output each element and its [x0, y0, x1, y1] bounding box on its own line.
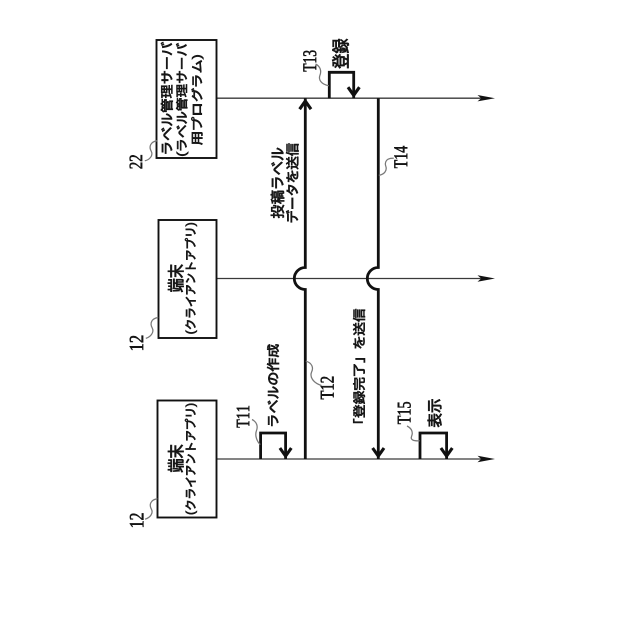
leader squiggle for T12 [306, 361, 322, 385]
leader squiggle for T15 [407, 426, 420, 441]
text box2-line2 [185, 223, 197, 334]
box terminal 2 [159, 220, 217, 338]
ref label T12 [321, 377, 334, 400]
ref label T15 [398, 402, 411, 424]
text box1-line3 [191, 55, 203, 145]
text t12msg-1 [271, 148, 285, 218]
text t13msg [332, 39, 349, 69]
pulse T13 (registration) [329, 72, 353, 98]
ref label 12bot [130, 513, 144, 526]
wire terminal-1 lifeline [217, 458, 490, 460]
leader squiggle for 12 (bottom) [145, 499, 157, 519]
wire terminal-2 lifeline [217, 278, 490, 280]
wire T14 message arrow (down) [367, 98, 378, 459]
leader squiggle for T14 [379, 158, 394, 175]
text box1-line2 [176, 43, 188, 156]
text box2-line1 [168, 265, 184, 293]
pulse T11 (label creation) [261, 433, 286, 459]
pulse T15 (display) [420, 433, 447, 459]
leader squiggle for T13 [316, 64, 329, 86]
ref label T14 [394, 146, 407, 168]
ref label 12mid [130, 336, 143, 350]
wire T12 message arrow (up) [294, 98, 305, 459]
text t15msg [428, 399, 442, 427]
text t12msg-2 [286, 143, 299, 222]
leader squiggle for 22 [145, 141, 157, 161]
text box3-line2 [185, 404, 197, 515]
box terminal 1 [158, 401, 217, 518]
leader squiggle for T11 [252, 420, 260, 445]
wire server lifeline [217, 97, 490, 99]
box label-management server [157, 40, 217, 158]
leader squiggle for 12 (middle) [146, 318, 158, 339]
ref label T11 [237, 406, 250, 428]
text box1-line1 [161, 42, 173, 154]
text t14msg [353, 309, 365, 423]
text box3-line1 [168, 445, 184, 473]
text t11msg [267, 344, 279, 426]
ref label 22 [130, 155, 143, 168]
ref label T13 [303, 50, 316, 71]
